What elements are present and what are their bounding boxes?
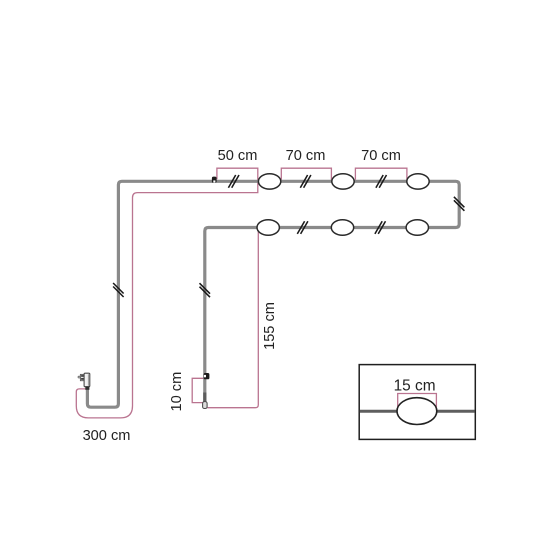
main cable (plug to lamps run) bbox=[87, 181, 459, 407]
break mark on second run (right) bbox=[375, 221, 386, 234]
dimension bracket 70 cm (second) bbox=[355, 168, 407, 180]
break mark on middle vertical bbox=[200, 283, 211, 297]
lamp holder 6 (second row) bbox=[406, 220, 428, 235]
break mark on top run (left) bbox=[228, 175, 239, 188]
lamp holder 4 (second row) bbox=[257, 220, 279, 235]
lamp holder 2 (top row) bbox=[332, 174, 354, 189]
detail box bbox=[359, 365, 475, 440]
connector on top run bbox=[212, 177, 217, 183]
lamp holder 3 (top row) bbox=[407, 174, 429, 189]
dimension line 155 cm bbox=[207, 228, 258, 408]
dimension bracket 15 cm bbox=[398, 394, 437, 408]
dimension line 300 cm (pink path from plug around to 50cm bracket) bbox=[76, 168, 257, 418]
detail lamp holder bbox=[397, 398, 437, 425]
svg-text:70 cm: 70 cm bbox=[361, 148, 401, 164]
lamp holder 5 (second row) bbox=[331, 220, 353, 235]
svg-text:50 cm: 50 cm bbox=[218, 148, 258, 164]
svg-text:10 cm: 10 cm bbox=[169, 372, 185, 412]
break mark on left vertical bbox=[113, 283, 124, 297]
break mark on top run (right) bbox=[376, 175, 387, 188]
cable darker tip above end cap bbox=[203, 393, 206, 402]
cable end cap bbox=[203, 402, 208, 409]
dimension bracket 70 cm (first) bbox=[281, 168, 331, 180]
power plug bbox=[78, 373, 90, 390]
break mark on second run (left) bbox=[297, 221, 308, 234]
dimension bracket 10 cm bbox=[192, 378, 203, 402]
detail box cable bbox=[360, 410, 475, 413]
break mark on right vertical bbox=[454, 197, 465, 211]
lamp holder 1 (top row) bbox=[258, 174, 280, 189]
svg-text:155 cm: 155 cm bbox=[262, 302, 278, 350]
svg-text:300 cm: 300 cm bbox=[83, 428, 131, 444]
break mark on top run (middle) bbox=[300, 175, 311, 188]
connector on middle vertical (10 cm mark) bbox=[204, 373, 210, 379]
svg-text:70 cm: 70 cm bbox=[286, 148, 326, 164]
svg-text:15 cm: 15 cm bbox=[394, 378, 436, 395]
